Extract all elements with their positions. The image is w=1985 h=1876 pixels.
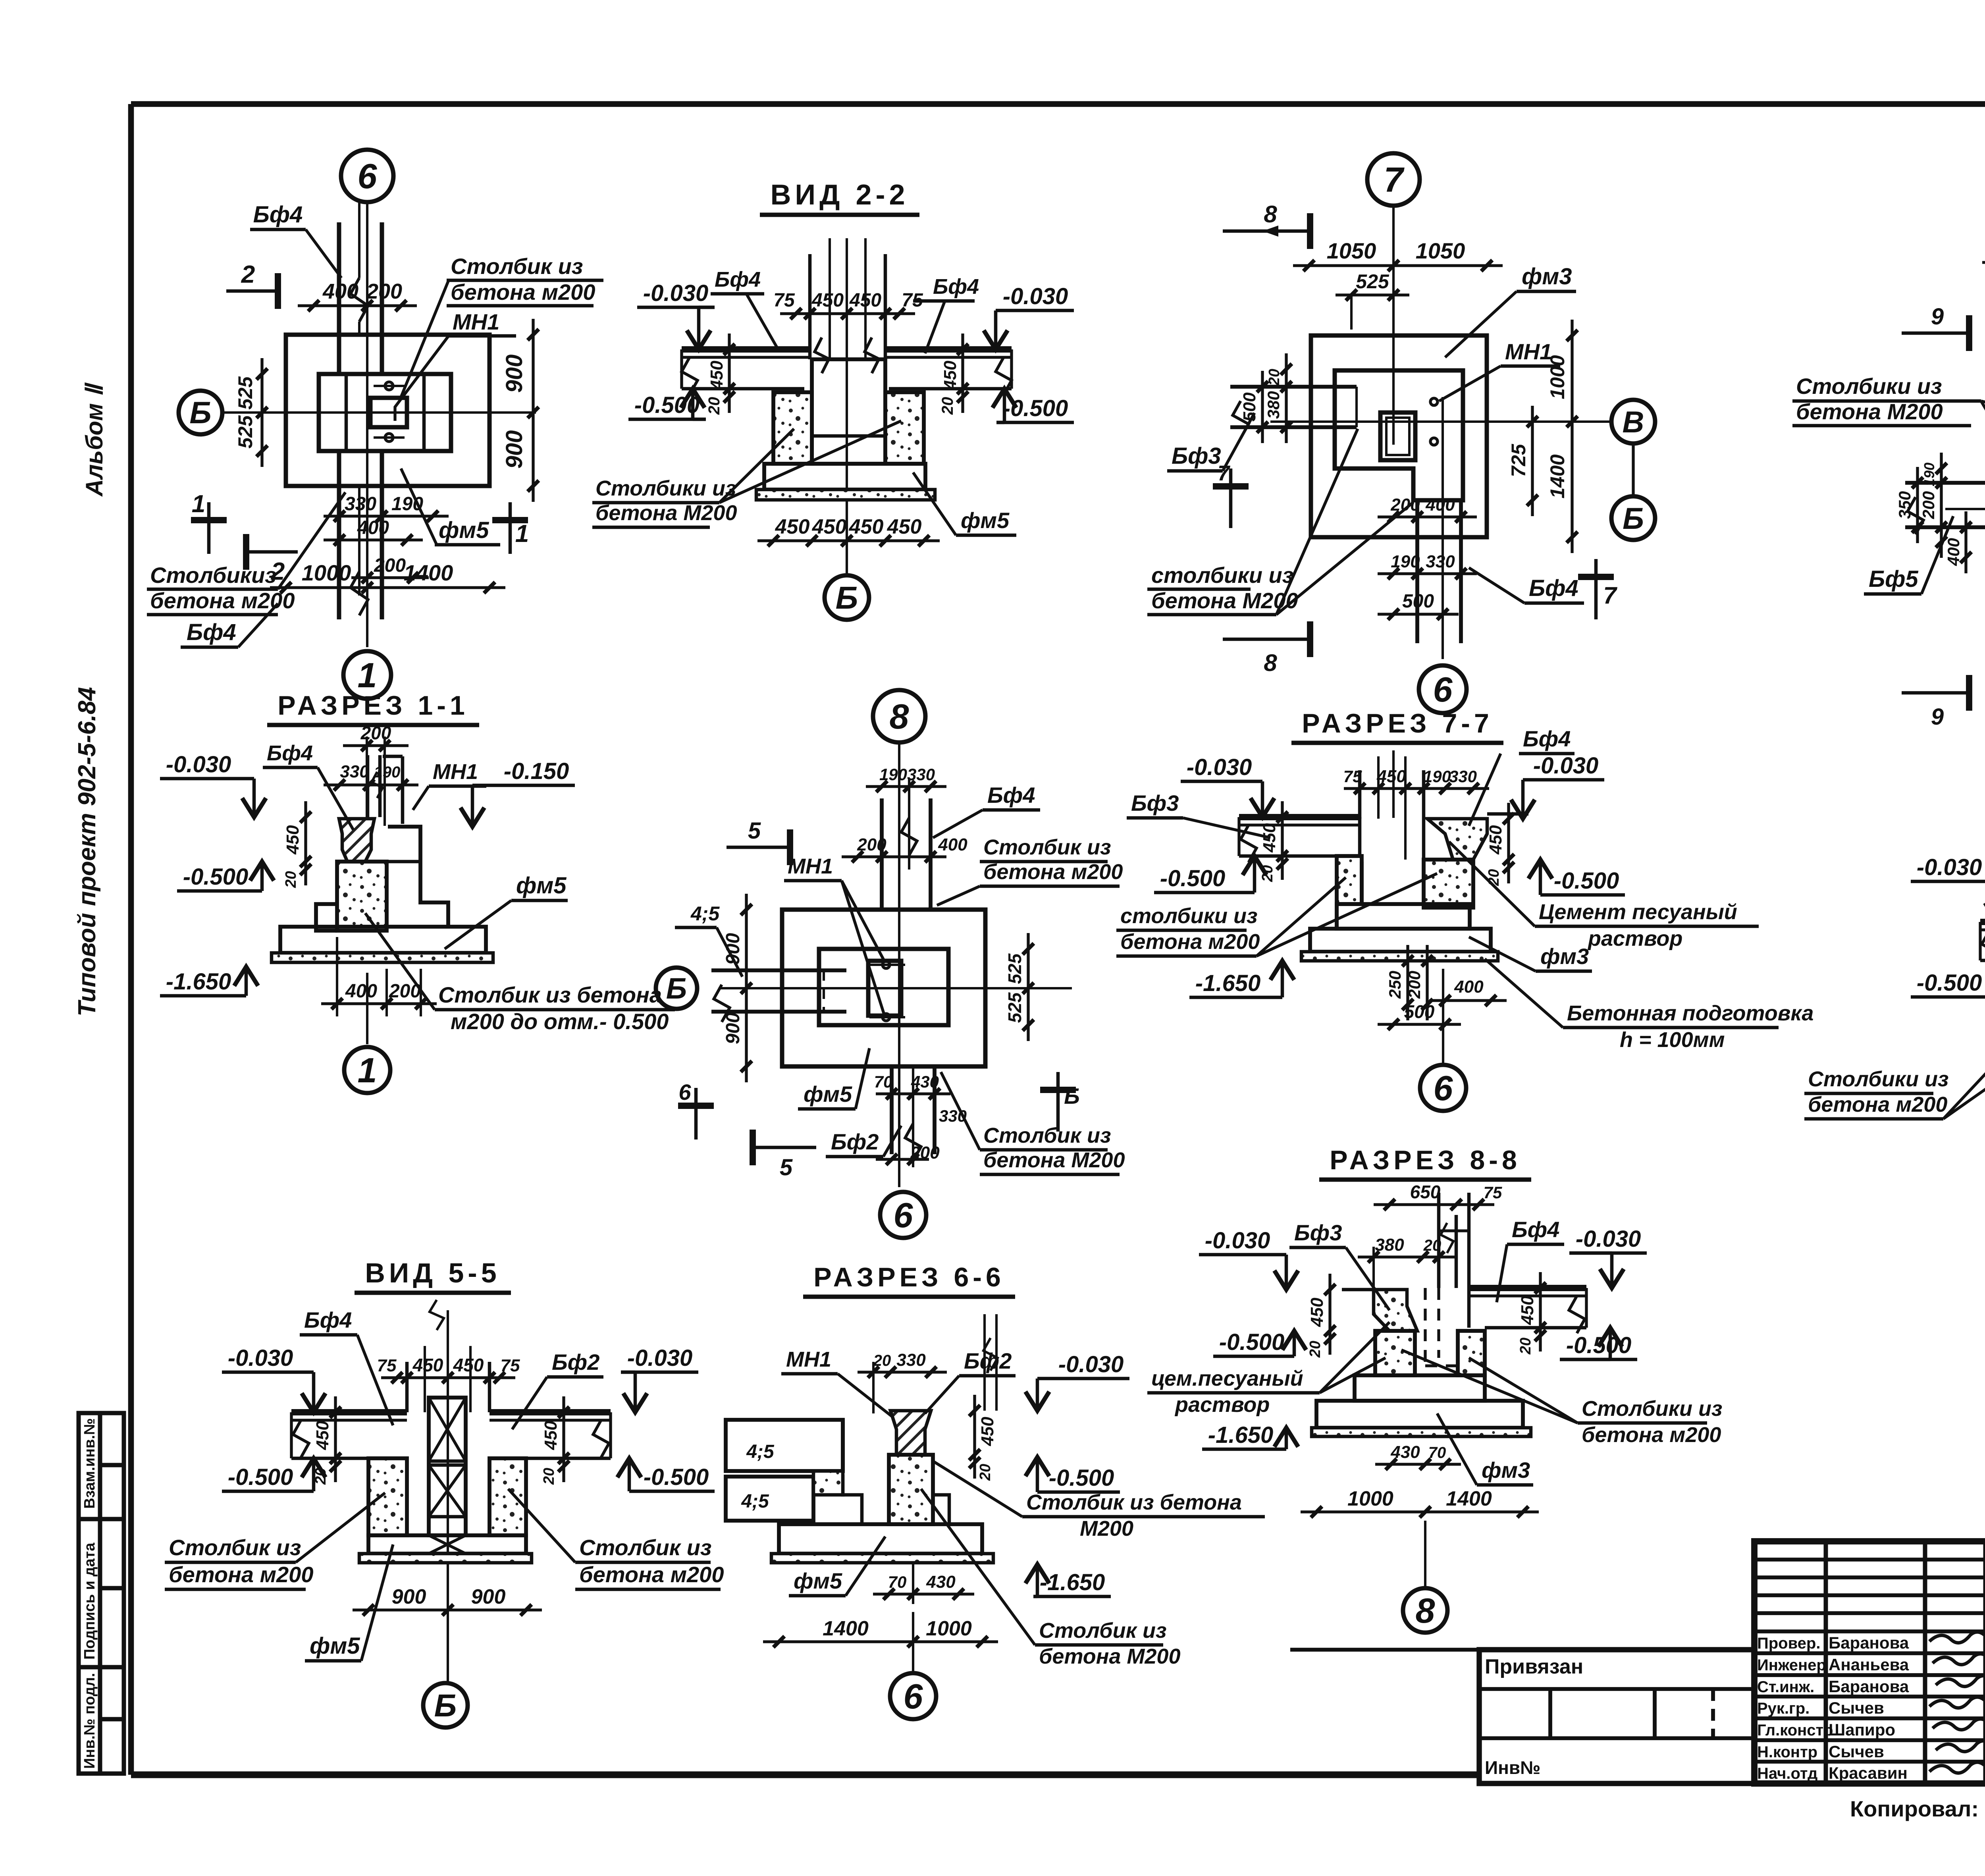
svg-text:Б: Б [836, 580, 858, 615]
privyazan top line extension [1290, 1648, 1479, 1652]
svg-text:75: 75 [501, 1356, 520, 1375]
column square [868, 961, 901, 1016]
svg-text:8: 8 [1264, 650, 1277, 676]
svg-text:1000: 1000 [1347, 1487, 1393, 1510]
svg-text:-0.030: -0.030 [166, 752, 231, 777]
left stippled column [1375, 1331, 1415, 1375]
svg-text:бетона М200: бетона М200 [595, 501, 737, 525]
svg-text:6: 6 [904, 1677, 923, 1716]
svg-text:450: 450 [1307, 1298, 1327, 1327]
pedestal rect [819, 949, 948, 1025]
svg-text:430: 430 [926, 1572, 956, 1592]
svg-text:-0.500: -0.500 [644, 1464, 709, 1490]
svg-text:500: 500 [1402, 591, 1434, 612]
figure: node 6 plan (узел 6) [147, 150, 603, 699]
base stipple strip [1312, 1428, 1531, 1436]
svg-text:190: 190 [1921, 463, 1937, 486]
svg-text:400: 400 [938, 835, 967, 854]
svg-text:Столбики из: Столбики из [1582, 1397, 1722, 1421]
svg-text:-0.500: -0.500 [1049, 1465, 1114, 1491]
svg-text:раствор: раствор [1587, 927, 1682, 951]
MH1 anchor top [385, 382, 393, 390]
svg-text:450: 450 [887, 515, 922, 538]
svg-text:1000: 1000 [302, 560, 351, 585]
vert dims 250/200 bottom [1406, 945, 1409, 1020]
svg-text:Столбик из бетона: Столбик из бетона [438, 982, 662, 1007]
svg-text:20: 20 [873, 1352, 891, 1369]
column square [370, 398, 407, 427]
dim 400/200 bottom [321, 1002, 437, 1005]
svg-text:450: 450 [313, 1421, 332, 1450]
svg-text:Гл.констр: Гл.констр [1757, 1722, 1833, 1739]
slab right [885, 346, 1012, 353]
svg-text:330: 330 [345, 494, 376, 515]
dim 1400/1000 bottom [763, 1640, 998, 1643]
axis vertical line [898, 742, 900, 1187]
dashed hidden lines below wall [1437, 1288, 1440, 1358]
svg-text:Бетонная подготовка: Бетонная подготовка [1567, 1001, 1813, 1025]
svg-text:330: 330 [340, 762, 369, 781]
svg-text:75: 75 [1484, 1183, 1502, 1202]
svg-text:ВИД 5-5: ВИД 5-5 [365, 1257, 500, 1288]
column lines above [1358, 770, 1362, 819]
svg-text:-0.030: -0.030 [1576, 1226, 1641, 1252]
pedestal inner division lines [345, 374, 348, 451]
svg-text:200: 200 [366, 280, 402, 303]
svg-text:Столбик из: Столбик из [579, 1535, 711, 1560]
svg-text:400: 400 [322, 280, 358, 303]
svg-text:Столбики из: Столбики из [1796, 374, 1942, 399]
svg-text:330: 330 [907, 765, 935, 784]
svg-text:1400: 1400 [1446, 1487, 1492, 1510]
svg-text:-0.030: -0.030 [1003, 283, 1068, 309]
svg-text:Типовой проект 902-5-6.84: Типовой проект 902-5-6.84 [73, 687, 101, 1016]
dim left small 190/200/350/400 [1940, 453, 1943, 558]
svg-text:раствор: раствор [1174, 1393, 1270, 1417]
svg-text:450: 450 [412, 1355, 443, 1375]
svg-text:Баранова: Баранова [1829, 1633, 1909, 1652]
outer slab rect фм5 [782, 910, 985, 1066]
svg-text:75: 75 [1343, 767, 1362, 786]
axis circle Б left [656, 968, 697, 1009]
left stepped blocks 4;5 [726, 1420, 843, 1471]
MH1 anchor bottom [385, 434, 393, 442]
svg-text:-0.500: -0.500 [228, 1464, 293, 1490]
dimension 400 lower [324, 538, 423, 541]
svg-text:200: 200 [374, 555, 406, 576]
vert dim 450/20 right [1539, 1272, 1542, 1352]
svg-text:725: 725 [1507, 443, 1530, 477]
svg-text:Столбик из: Столбик из [1039, 1619, 1167, 1643]
dimension 900/900 right [532, 319, 534, 502]
svg-text:6: 6 [1434, 1068, 1453, 1108]
left step [316, 904, 337, 931]
svg-text:Ст.инж.: Ст.инж. [1757, 1678, 1814, 1696]
outer slab square фм3 [1311, 335, 1487, 537]
svg-text:525: 525 [1004, 992, 1025, 1023]
svg-text:4;5: 4;5 [741, 1491, 769, 1512]
vert dim 450/20 right [562, 1396, 565, 1482]
axis circle 1 bottom [366, 973, 368, 1044]
step right small [933, 1495, 949, 1524]
svg-text:фм3: фм3 [1522, 264, 1572, 289]
section mark 7 left small [1229, 469, 1233, 528]
stippled pillar [889, 1455, 933, 1524]
svg-text:Альбом Ⅱ: Альбом Ⅱ [81, 382, 108, 497]
svg-text:450: 450 [283, 825, 303, 855]
svg-text:фм5: фм5 [516, 873, 567, 898]
dim 1050/1050 top [1982, 261, 1985, 264]
left stippled column [368, 1458, 407, 1535]
svg-text:1: 1 [358, 1051, 377, 1090]
svg-text:380: 380 [1264, 391, 1283, 419]
svg-text:900: 900 [723, 1012, 744, 1044]
svg-text:МН1: МН1 [788, 854, 833, 878]
slab left [1980, 919, 1985, 925]
base stipple strip [272, 953, 493, 962]
dim 20/330 top [858, 1371, 947, 1373]
svg-text:фм5: фм5 [804, 1082, 852, 1107]
svg-text:6: 6 [1433, 670, 1453, 709]
svg-text:Провер.: Провер. [1757, 1635, 1820, 1652]
svg-text:75: 75 [377, 1356, 397, 1375]
staff rows horizontals [1754, 1651, 1985, 1655]
section mark 9 left top [1902, 332, 1969, 335]
wall stub left БФ3 [1230, 385, 1357, 389]
svg-text:450: 450 [541, 1421, 561, 1450]
dim 430/70 bottom [1375, 1463, 1461, 1465]
svg-text:-0.030: -0.030 [1205, 1228, 1270, 1253]
svg-text:1: 1 [192, 490, 205, 518]
dim 200 bottom3 [876, 1158, 929, 1161]
svg-text:бетона м200: бетона м200 [1808, 1093, 1947, 1116]
svg-text:20: 20 [1307, 1341, 1324, 1358]
privyazan box [1479, 1650, 1754, 1783]
svg-text:Бф4: Бф4 [253, 202, 303, 228]
svg-text:20: 20 [1486, 869, 1502, 886]
svg-text:450: 450 [811, 290, 844, 311]
right concrete column [885, 392, 924, 464]
axis circle Б bottom [846, 500, 848, 575]
dim left small 20/380/500 [1285, 353, 1287, 443]
dim right 725 [1531, 406, 1534, 516]
figure: node 8 plan (узел 8) [656, 690, 1125, 1238]
dim 1000/1400 bottom [1301, 1510, 1539, 1513]
dimension 1000/1400 bottom [270, 586, 505, 589]
svg-text:Подпись и дата: Подпись и дата [81, 1542, 98, 1660]
svg-text:450: 450 [1486, 825, 1505, 855]
svg-text:200: 200 [360, 723, 391, 743]
svg-text:-0.500: -0.500 [1219, 1329, 1284, 1355]
dim 75/450 top [1344, 787, 1421, 790]
svg-text:Бф4: Бф4 [187, 619, 236, 645]
section mark 1 left [207, 502, 211, 554]
svg-text:МН1: МН1 [453, 309, 499, 334]
dim 70/430 [873, 1593, 974, 1595]
svg-text:1050: 1050 [1416, 238, 1465, 263]
dim 190/330 lower [1378, 572, 1477, 575]
svg-text:1000: 1000 [926, 1617, 972, 1640]
svg-text:РАЗРЕЗ 6-6: РАЗРЕЗ 6-6 [813, 1262, 1005, 1292]
svg-text:Б: Б [1623, 502, 1644, 536]
dim 650/75 top [1374, 1203, 1494, 1206]
section mark 5 top-left [727, 846, 790, 849]
svg-text:Бф4: Бф4 [267, 741, 313, 765]
svg-text:-0.150: -0.150 [504, 758, 569, 784]
svg-text:-0.030: -0.030 [627, 1345, 692, 1371]
svg-text:7: 7 [1603, 582, 1617, 609]
svg-text:525: 525 [234, 376, 256, 410]
svg-text:450: 450 [453, 1355, 484, 1375]
svg-text:20: 20 [705, 397, 723, 415]
svg-text:330: 330 [1449, 767, 1477, 786]
MH1 dots [883, 961, 890, 968]
left concrete column [773, 392, 812, 464]
svg-text:-0.030: -0.030 [1533, 753, 1598, 779]
section mark 7 right [1594, 559, 1598, 619]
svg-text:Столбик из: Столбик из [169, 1535, 301, 1560]
svg-text:В: В [1623, 405, 1644, 439]
svg-text:Б: Б [666, 972, 687, 1005]
svg-text:450: 450 [849, 515, 884, 538]
svg-text:Столбики из: Столбики из [595, 476, 736, 500]
svg-text:Столбикиз: Столбикиз [150, 563, 276, 588]
left stippled column [1337, 856, 1362, 904]
svg-text:450: 450 [849, 290, 881, 311]
svg-text:Бф3: Бф3 [1172, 443, 1221, 469]
svg-text:Б: Б [434, 1688, 457, 1723]
dim 200/400 bottom [1378, 515, 1477, 518]
section mark 8 top-left [1223, 229, 1310, 233]
axis horizontal line node6 [222, 411, 536, 414]
svg-text:8: 8 [890, 697, 909, 736]
dim 900/900 bottom [353, 1608, 542, 1611]
svg-text:200: 200 [1405, 971, 1424, 999]
foundation slab фм5 outline [286, 335, 490, 486]
axis horizontal line [1270, 420, 1612, 423]
svg-text:бетона м200: бетона м200 [1582, 1423, 1721, 1447]
svg-text:Бф2: Бф2 [964, 1348, 1012, 1373]
svg-text:Привязан: Привязан [1485, 1655, 1583, 1678]
svg-text:фм5: фм5 [310, 1633, 360, 1659]
section mark Б right [1056, 1072, 1060, 1132]
vert dim 450/20 right [1507, 803, 1510, 883]
svg-text:1400: 1400 [404, 560, 453, 585]
svg-text:500: 500 [1404, 1001, 1435, 1022]
svg-text:500: 500 [1240, 392, 1259, 422]
svg-text:20: 20 [541, 1468, 557, 1485]
title block [1290, 1541, 1985, 1821]
svg-text:1400: 1400 [1546, 454, 1569, 498]
svg-text:фм3: фм3 [1482, 1458, 1530, 1483]
slab left [291, 1409, 407, 1415]
dim 525 top2 [1336, 293, 1409, 296]
svg-text:1050: 1050 [1327, 238, 1376, 263]
axis circle 6 bottom [880, 1192, 926, 1238]
svg-text:Б: Б [189, 395, 211, 430]
axis line vertical [447, 1310, 449, 1683]
figure: РАЗРЕЗ 9-9 [1804, 772, 1985, 1204]
svg-text:1: 1 [358, 656, 377, 695]
svg-text:h = 100мм: h = 100мм [1620, 1028, 1725, 1052]
svg-text:Бф2: Бф2 [552, 1350, 599, 1375]
pedestal outline [1360, 862, 1364, 904]
svg-text:6: 6 [894, 1195, 913, 1235]
dim 1050/1050 top [1293, 264, 1503, 267]
dim right 1000/1400 [1571, 320, 1573, 553]
dim 500 bottom [1378, 1023, 1461, 1026]
dim 500 bottom [1378, 613, 1459, 615]
dimension 400/200 top [298, 304, 417, 307]
svg-text:М200: М200 [1080, 1517, 1133, 1541]
svg-text:8: 8 [1264, 201, 1277, 228]
figure: РАЗРЕЗ 1-1 [160, 690, 675, 1093]
svg-text:Инженер: Инженер [1757, 1656, 1826, 1674]
stippled pillar center [337, 862, 387, 931]
svg-text:190: 190 [1423, 767, 1451, 786]
vert dim 450/20 left [334, 1396, 337, 1482]
svg-text:фм5: фм5 [439, 517, 489, 543]
central pillar outline [812, 359, 885, 464]
svg-text:бетона м200: бетона м200 [451, 280, 595, 305]
svg-text:Ананьева: Ананьева [1829, 1655, 1909, 1674]
svg-text:-0.030: -0.030 [1058, 1352, 1124, 1377]
vert dim 450/20 right [961, 334, 964, 413]
dimension 330/190 [324, 515, 449, 517]
dim 200/400 [842, 855, 946, 858]
svg-text:ВИД 2-2: ВИД 2-2 [770, 179, 909, 211]
svg-text:Столбик из: Столбик из [983, 1124, 1111, 1147]
svg-text:МН1: МН1 [786, 1348, 831, 1371]
dim 450x4 bottom [757, 539, 940, 542]
column square [1380, 413, 1415, 460]
svg-text:430: 430 [911, 1072, 939, 1091]
svg-text:бетона М200: бетона М200 [1796, 399, 1943, 424]
hatched beam БФ3 left [1374, 1290, 1417, 1331]
svg-text:8: 8 [1416, 1591, 1435, 1630]
svg-text:20: 20 [1266, 369, 1283, 386]
svg-text:Бф4: Бф4 [987, 783, 1035, 808]
section mark 2 top-left [226, 289, 278, 293]
svg-text:-1.650: -1.650 [1208, 1422, 1273, 1448]
svg-text:525: 525 [234, 415, 256, 449]
svg-text:Инв.№ подл.: Инв.№ подл. [81, 1673, 98, 1769]
svg-text:Цемент песуаный: Цемент песуаный [1539, 900, 1737, 924]
axis circle В right [1611, 400, 1655, 443]
svg-text:Бф4: Бф4 [1523, 726, 1571, 751]
svg-text:70: 70 [888, 1573, 907, 1591]
svg-text:20: 20 [977, 1464, 994, 1481]
svg-text:фм3: фм3 [1540, 944, 1589, 969]
svg-text:Сычев: Сычев [1829, 1742, 1884, 1761]
base block [764, 464, 925, 490]
dim 380/20 small [1358, 1255, 1455, 1258]
svg-text:Бф3: Бф3 [1131, 791, 1179, 816]
wall БФ4 above [337, 222, 341, 373]
base stipple strip [1301, 952, 1498, 961]
base stipple strip [359, 1554, 532, 1563]
svg-text:200: 200 [857, 835, 887, 854]
svg-text:400: 400 [345, 981, 377, 1002]
svg-text:Бф4: Бф4 [1512, 1217, 1559, 1242]
slab right edge vertical [1358, 817, 1362, 856]
dimension 525/525 left [260, 358, 263, 467]
svg-text:Столбик из бетона: Столбик из бетона [1026, 1490, 1242, 1514]
svg-text:20: 20 [1517, 1338, 1534, 1355]
svg-text:900: 900 [392, 1585, 426, 1608]
svg-text:-0.030: -0.030 [1917, 854, 1982, 880]
svg-text:450: 450 [812, 515, 847, 538]
svg-text:20: 20 [283, 871, 299, 888]
LEFT MARGIN vertical texts [73, 382, 108, 1016]
column lines above [405, 1362, 409, 1412]
svg-text:Нач.отд: Нач.отд [1757, 1765, 1817, 1782]
svg-text:-1.650: -1.650 [1195, 970, 1260, 996]
svg-text:7: 7 [1384, 160, 1405, 199]
vert dim 450/20 [973, 1395, 976, 1479]
svg-text:Столбик из: Столбик из [451, 254, 583, 279]
MH1 anchor dots [1430, 398, 1438, 405]
svg-text:-1.650: -1.650 [166, 969, 231, 995]
axis circle 6 bottom [1442, 969, 1444, 1064]
svg-text:Бф4: Бф4 [304, 1307, 352, 1332]
svg-text:бетона м200: бетона м200 [983, 860, 1123, 884]
axis circle 8 top [873, 690, 925, 742]
dim 75/450/450/75 top [780, 312, 915, 315]
svg-text:Рук.гр.: Рук.гр. [1757, 1700, 1810, 1717]
svg-text:330: 330 [1426, 552, 1455, 571]
svg-text:бетона М200: бетона М200 [983, 1148, 1125, 1172]
axis circle Б bottom [423, 1683, 468, 1728]
svg-text:380: 380 [1375, 1235, 1404, 1255]
figure: РАЗРЕЗ 6-6 [726, 1262, 1265, 1719]
right stippled column [490, 1458, 526, 1535]
figure: node 7 plan (узел 7) [1147, 153, 1655, 713]
hatched beam БФ4 right (trapezoid) [1427, 819, 1487, 860]
slab right [1469, 1285, 1586, 1291]
svg-text:фм5: фм5 [961, 508, 1010, 533]
svg-text:70: 70 [1428, 1444, 1446, 1461]
svg-text:Взам.инв.№: Взам.инв.№ [81, 1418, 98, 1509]
axis horizontal line [1945, 508, 1985, 510]
axis circle Б right lower [1611, 496, 1655, 540]
svg-text:-0.500: -0.500 [1160, 866, 1225, 891]
svg-text:-0.030: -0.030 [1187, 754, 1252, 780]
svg-text:столбики из: столбики из [1120, 904, 1258, 928]
step block [1355, 1375, 1485, 1401]
section mark 1 right [509, 502, 512, 554]
svg-text:Баранова: Баранова [1829, 1677, 1909, 1696]
axis vertical line node6 [366, 202, 368, 647]
pedestal rect [319, 374, 451, 451]
axis circle 6 bottom [912, 1612, 914, 1674]
vert dim 450/20 left [1281, 801, 1284, 880]
right stippled column [1424, 860, 1473, 908]
axis vertical line [1392, 206, 1395, 445]
figure: РАЗРЕЗ 8-8 [1147, 1145, 1722, 1633]
svg-text:цем.песуаный: цем.песуаный [1151, 1367, 1303, 1390]
svg-text:бетона м200: бетона м200 [1120, 930, 1260, 954]
hatched beam БФ4 cross-section [339, 819, 374, 862]
svg-text:190: 190 [879, 765, 907, 784]
base block with X [368, 1535, 526, 1554]
svg-text:Копировал: К оршунова: Копировал: К оршунова [1850, 1796, 1985, 1821]
svg-text:190: 190 [1391, 552, 1420, 571]
svg-text:1: 1 [515, 520, 529, 548]
svg-text:Н.контр: Н.контр [1757, 1743, 1817, 1761]
svg-text:РАЗРЕЗ 7-7: РАЗРЕЗ 7-7 [1302, 708, 1493, 738]
section mark 9 left bottom [1902, 691, 1969, 695]
